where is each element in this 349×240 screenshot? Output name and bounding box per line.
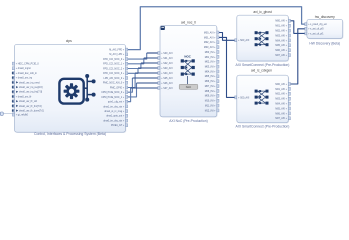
cips gear icon <box>59 74 95 104</box>
svg-text:hw_discovery: hw_discovery <box>315 15 335 19</box>
svg-text:+ gt_refclk0: + gt_refclk0 <box>16 114 29 117</box>
svg-text:axi_noc_0: axi_noc_0 <box>181 20 196 24</box>
svg-text:M_AXI_LPD +: M_AXI_LPD + <box>109 53 124 56</box>
axi_ic_cdxgen left port S00_AXI <box>235 96 250 99</box>
svg-text:M04_INI +: M04_INI + <box>205 71 216 73</box>
svg-text:CPM_PCIE_NOC_1 +: CPM_PCIE_NOC_1 + <box>101 97 125 99</box>
svg-text:M00_AXI +: M00_AXI + <box>204 31 216 34</box>
svg-text:dma1_tm_dsc_sts +: dma1_tm_dsc_sts + <box>103 105 125 108</box>
axi_noc right ports <box>204 31 219 112</box>
svg-text:dma0_usr_irq_fnc[7:0]: dma0_usr_irq_fnc[7:0] <box>19 91 43 94</box>
svg-text:M05_AXI +: M05_AXI + <box>275 107 287 110</box>
axi_ic_ghost caption <box>236 63 290 67</box>
svg-text:NOC: NOC <box>184 54 191 58</box>
svg-text:axi_ic_ghost: axi_ic_ghost <box>253 10 271 14</box>
wire cips M_AXI_FPD to hw_discovery s_pcie4_cfg_ext <box>126 7 307 50</box>
wire cips CPM_PCIE_NOC_1 to axi_noc S07_AXI <box>126 88 131 102</box>
svg-text:+ S01_AXI: + S01_AXI <box>161 57 173 60</box>
svg-text:M02_INI +: M02_INI + <box>205 62 216 64</box>
svg-text:M06_INI +: M06_INI + <box>205 81 216 83</box>
hw_discovery left ports <box>305 23 327 36</box>
axi_noc_0 instance label <box>181 20 196 24</box>
cips caption <box>34 132 106 136</box>
svg-text:M00_AXI +: M00_AXI + <box>275 20 287 23</box>
svg-text:+ S00_AXI: + S00_AXI <box>161 52 173 55</box>
wire segment into axi_noc S00_AXI <box>147 52 160 54</box>
svg-text:pcie1_cfg_ext +: pcie1_cfg_ext + <box>108 101 125 104</box>
svg-text:M05_INI +: M05_INI + <box>205 76 216 78</box>
svg-text:+ S07_AXI: + S07_AXI <box>161 87 173 90</box>
svg-text:dma0_usr_flr_done[7:0]: dma0_usr_flr_done[7:0] <box>19 110 44 113</box>
wire segment into axi_noc S01_AXI <box>144 57 160 59</box>
wire axi_noc M00_AXI to axi_ic_ghost S00_AXI <box>217 33 237 41</box>
svg-text:PCIE1_GT +: PCIE1_GT + <box>111 125 125 127</box>
svg-text:NoC: NoC <box>186 85 191 89</box>
wire axi_noc M01_AXI to axi_ic_cdxgen S00_AXI <box>217 37 237 97</box>
wire segment into axi_noc S02_AXI <box>141 62 160 64</box>
svg-text:M05_AXI +: M05_AXI + <box>275 44 287 47</box>
wire cips FPD_CCI_NOC_3 to axi_noc S03_AXI <box>126 68 139 73</box>
svg-text:dma0_usr_irq_vend: dma0_usr_irq_vend <box>19 81 40 84</box>
svg-text:M01_INI +: M01_INI + <box>205 57 216 59</box>
axi_noc NOC icon <box>179 54 198 89</box>
svg-text:+ S00_AXI: + S00_AXI <box>238 96 250 99</box>
wire axi_ic_ghost M00_AXI to hw_discovery s_axi_ctl_pf1 <box>288 21 307 34</box>
svg-text:AXI SmartConnect (Pre-Producti: AXI SmartConnect (Pre-Production) <box>236 124 290 128</box>
axi_ic_ghost block <box>237 15 289 62</box>
svg-text:dma0_usr_flr_vld: dma0_usr_flr_vld <box>19 100 38 103</box>
svg-text:FPD_CCI_NOC_2 +: FPD_CCI_NOC_2 + <box>103 68 125 70</box>
hw_discovery instance label <box>315 15 335 19</box>
svg-text:+ dma0_dsc_crdt_in: + dma0_dsc_crdt_in <box>16 72 38 75</box>
wire cips LPD_AXI_NOC_0 to axi_noc S04_AXI <box>126 73 136 88</box>
axi_ic_cdxgen caption <box>236 124 290 128</box>
svg-text:+ dma0_usr_irq: + dma0_usr_irq <box>16 77 33 80</box>
svg-text:M02_AXI +: M02_AXI + <box>275 30 287 33</box>
svg-text:PMC_NOC_AXI_0 +: PMC_NOC_AXI_0 + <box>103 82 125 85</box>
svg-text:+ dma0_usr_flr: + dma0_usr_flr <box>16 95 32 98</box>
wire segment into axi_noc S03_AXI <box>138 67 160 69</box>
svg-text:AXI NoC (Pre-Production): AXI NoC (Pre-Production) <box>169 119 207 123</box>
svg-text:Control, Interfaces & Processi: Control, Interfaces & Processing System … <box>34 132 106 136</box>
axi_noc block <box>160 25 218 117</box>
svg-text:dma0_usr_flr_fnc[7:0]: dma0_usr_flr_fnc[7:0] <box>19 105 42 108</box>
svg-text:M03_INI +: M03_INI + <box>205 66 216 68</box>
wire cips FPD_CCI_NOC_1 to axi_noc S01_AXI <box>126 58 144 64</box>
cips left ports <box>12 62 44 116</box>
svg-text:dma0_tm_dsc_sts +: dma0_tm_dsc_sts + <box>103 119 125 122</box>
svg-text:M02_AXI +: M02_AXI + <box>275 93 287 96</box>
processing system cips block <box>15 44 127 133</box>
svg-text:dma1_st_rx_msg +: dma1_st_rx_msg + <box>104 110 125 113</box>
svg-text:+ s_axi_ctl_pf1: + s_axi_ctl_pf1 <box>308 32 324 35</box>
svg-text:+ dma0_mgmt: + dma0_mgmt <box>16 67 31 70</box>
svg-text:M02_AXI +: M02_AXI + <box>204 41 216 44</box>
svg-text:M03_AXI +: M03_AXI + <box>275 34 287 37</box>
svg-text:M07_AXI +: M07_AXI + <box>275 117 287 120</box>
wire segment into axi_noc S06_AXI <box>137 82 161 84</box>
wire segment into axi_noc S05_AXI <box>132 77 160 79</box>
axi_ic_cdxgen block <box>237 75 289 123</box>
svg-text:M09_INI +: M09_INI + <box>205 96 216 98</box>
svg-text:AXI SmartConnect (Pre-Producti: AXI SmartConnect (Pre-Production) <box>236 63 290 67</box>
svg-text:FPD_CCI_NOC_1 +: FPD_CCI_NOC_1 + <box>103 64 125 66</box>
cips right ports <box>101 48 127 127</box>
axi_ic_cdxgen smartconnect icon <box>255 90 269 105</box>
svg-text:M01_AXI +: M01_AXI + <box>275 88 287 91</box>
gt_refclk0 external interface port <box>0 112 12 115</box>
svg-text:+ s_pcie4_cfg_ext: + s_pcie4_cfg_ext <box>308 23 327 26</box>
svg-text:LPD_AXI_NOC_0 +: LPD_AXI_NOC_0 + <box>104 77 125 80</box>
svg-text:M12_INI +: M12_INI + <box>205 110 216 112</box>
svg-text:CPM_PCIE_NOC_0 +: CPM_PCIE_NOC_0 + <box>101 92 125 94</box>
svg-text:+ S02_AXI: + S02_AXI <box>161 62 173 65</box>
axi_ic_ghost right ports M00-M07 <box>275 19 290 57</box>
axi_ic_ghost instance label <box>253 10 271 14</box>
svg-text:dma0_usr_irq_req[4:0]: dma0_usr_irq_req[4:0] <box>19 86 43 89</box>
svg-text:cips: cips <box>66 39 72 43</box>
svg-text:FPD_CCI_NOC_0 +: FPD_CCI_NOC_0 + <box>103 59 125 61</box>
svg-text:M08_INI +: M08_INI + <box>205 91 216 93</box>
svg-text:M10_INI +: M10_INI + <box>205 101 216 103</box>
axi_noc left ports S00-S07 <box>158 52 173 90</box>
axi_ic_cdxgen right ports M00-M07 <box>275 83 290 121</box>
svg-text:M07_INI +: M07_INI + <box>205 86 216 88</box>
svg-text:M03_AXI +: M03_AXI + <box>275 98 287 101</box>
svg-text:dma1_qsts_out +: dma1_qsts_out + <box>106 115 125 118</box>
svg-text:M04_AXI +: M04_AXI + <box>275 103 287 106</box>
svg-text:M11_INI +: M11_INI + <box>205 105 216 107</box>
svg-text:+ S03_AXI: + S03_AXI <box>161 67 173 70</box>
cips instance label <box>66 39 72 43</box>
axi_noc corner expand icon <box>161 26 165 30</box>
svg-text:FPD_CCI_NOC_3 +: FPD_CCI_NOC_3 + <box>103 73 125 75</box>
svg-text:+ S04_AXI: + S04_AXI <box>161 72 173 75</box>
svg-text:M03_AXI +: M03_AXI + <box>204 46 216 49</box>
axi_ic_ghost left port S00_AXI <box>235 39 250 42</box>
wire cips FPD_CCI_NOC_0 to axi_noc S00_AXI <box>126 53 147 59</box>
svg-text:M04_AXI +: M04_AXI + <box>275 39 287 42</box>
svg-text:M_AXI_FPD +: M_AXI_FPD + <box>109 49 125 52</box>
svg-text:M01_AXI +: M01_AXI + <box>275 25 287 28</box>
svg-text:M06_AXI +: M06_AXI + <box>275 112 287 115</box>
axi_ic_ghost smartconnect icon <box>255 31 269 46</box>
svg-text:M00_INI +: M00_INI + <box>205 52 216 54</box>
svg-text:M06_AXI +: M06_AXI + <box>275 49 287 52</box>
svg-text:axi_ic_cdxgen: axi_ic_cdxgen <box>251 69 272 73</box>
hw_discovery block <box>307 19 344 39</box>
wire segment into axi_noc S07_AXI <box>131 87 160 89</box>
svg-text:M00_AXI +: M00_AXI + <box>275 83 287 86</box>
svg-text:+ S05_AXI: + S05_AXI <box>161 77 173 80</box>
axi_noc caption <box>169 119 207 123</box>
svg-text:HW Discovery (Beta): HW Discovery (Beta) <box>309 41 340 45</box>
axi_ic_cdxgen instance label <box>251 69 272 73</box>
svg-text:+ s_axi_ctl_pf0: + s_axi_ctl_pf0 <box>308 28 324 31</box>
svg-text:PMC_GPIO +: PMC_GPIO + <box>110 87 125 89</box>
svg-text:+ S00_AXI: + S00_AXI <box>238 39 250 42</box>
wire segment into axi_noc S04_AXI <box>135 72 160 74</box>
wire axi_ic_cdxgen M00_AXI to hw_discovery s_axi_ctl_pf0 <box>288 29 307 84</box>
svg-text:M01_AXI +: M01_AXI + <box>204 36 216 39</box>
wire cips FPD_CCI_NOC_2 to axi_noc S02_AXI <box>126 63 141 69</box>
wire cips CPM_PCIE_NOC_0 to axi_noc S06_AXI <box>126 83 137 97</box>
wire cips PMC_NOC_AXI_0 to axi_noc S05_AXI <box>126 78 133 92</box>
svg-text:+ S06_AXI: + S06_AXI <box>161 82 173 85</box>
svg-text:M07_AXI +: M07_AXI + <box>275 54 287 57</box>
svg-text:+ HDC_CPM_PCIE_0: + HDC_CPM_PCIE_0 <box>16 64 40 66</box>
hw_discovery caption <box>309 41 340 45</box>
